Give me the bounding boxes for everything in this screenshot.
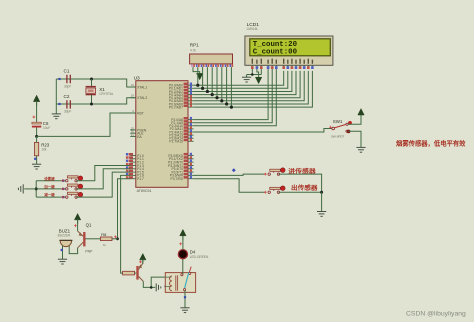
wire LCD VDD power	[257, 69, 259, 78]
capacitor C2	[64, 94, 72, 113]
svg-text:XTAL1: XTAL1	[137, 85, 147, 89]
wire SW1 upper throw to power	[348, 114, 361, 124]
power +5V (LED)	[180, 229, 186, 240]
node: C1/X1 junction	[90, 78, 93, 81]
U3 left pins XTAL1 XTAL2 RST	[130, 83, 147, 115]
wire R23 top	[36, 136, 38, 142]
wire common rail to button 3	[36, 196, 65, 198]
svg-text:RP1: RP1	[190, 43, 199, 48]
svg-text:30pF: 30pF	[64, 84, 71, 88]
wire P1.6 to relay driver	[121, 175, 131, 273]
wire sensors common to ground	[321, 192, 323, 211]
wire power to Q2 emitter	[142, 259, 144, 263]
wire common rail to button 1	[36, 180, 65, 182]
relay coil	[165, 275, 177, 290]
svg-text:设置键: 设置键	[44, 176, 55, 181]
wire LCD E to P2.2	[194, 69, 277, 126]
lcd pin boxes	[251, 65, 314, 69]
wire common rail to ground	[24, 188, 36, 190]
svg-text:10uF: 10uF	[43, 126, 50, 130]
wire R23 to ground	[36, 156, 38, 164]
svg-text:U3: U3	[134, 76, 140, 82]
wire P0.7 to LCD D7	[194, 71, 313, 107]
svg-text:XTAL2: XTAL2	[137, 96, 147, 100]
svg-text:P2.7/A15: P2.7/A15	[169, 140, 183, 144]
svg-text:30pF: 30pF	[64, 110, 71, 114]
ground (relay contact)	[180, 308, 189, 313]
wire SW1 lower throw to ground	[348, 131, 361, 147]
wire button3 to P1.5	[76, 172, 130, 197]
svg-text:减一键: 减一键	[44, 192, 55, 197]
crystal X1	[86, 87, 114, 97]
ground (LCD VSS/VEE)	[242, 77, 251, 82]
wire crystal bottom	[91, 95, 93, 104]
wire exit sensor to common node	[279, 191, 322, 193]
ground (crystal caps)	[52, 114, 61, 119]
svg-text:EA: EA	[137, 135, 142, 139]
wire buzzer to ground	[62, 246, 64, 259]
wire LCD RS to P2.0	[194, 69, 269, 120]
wire R9 to Q2 base	[135, 272, 137, 274]
led D4 LED-GREEN	[178, 249, 209, 259]
node coil wire junction	[150, 286, 153, 289]
svg-text:P1.7: P1.7	[137, 177, 144, 181]
ground (buzzer)	[58, 259, 67, 264]
buzzer BUZ1	[58, 228, 73, 246]
capacitor C6 (electrolytic)	[32, 121, 50, 130]
wire P2.4 to SW1 pole	[194, 129, 332, 133]
wire P0.4 to LCD D4	[194, 71, 301, 98]
svg-text:CRYSTAL: CRYSTAL	[99, 92, 114, 96]
origin marker (blue diamond)	[232, 168, 236, 172]
resistor R23	[35, 142, 50, 155]
U3 port P1 pins (P1.0-P1.7)	[126, 153, 144, 181]
wire power to C6	[36, 101, 38, 122]
U3 port P3 pins (P3.0-P3.7)	[168, 153, 193, 181]
wire C6 to RST node	[36, 128, 38, 137]
capacitor C1	[64, 69, 72, 89]
wire crystal caps common to ground	[55, 79, 57, 114]
wire common rail to button 2	[36, 188, 65, 190]
wire P3.6 to entry sensor	[194, 174, 266, 175]
transistor Q2 PNP	[136, 263, 143, 281]
svg-text:加一键: 加一键	[43, 184, 55, 189]
wire entry sensor to common node	[279, 174, 322, 192]
power +5V (SW1)	[358, 109, 364, 120]
svg-text:D4: D4	[190, 249, 196, 254]
power +5V (buzzer)	[74, 214, 80, 225]
node VSS junction	[251, 73, 254, 76]
svg-text:烟雾传感器，低电平有效: 烟雾传感器，低电平有效	[396, 139, 466, 148]
wire LCD RW to P2.1	[194, 69, 273, 123]
wire RP1 pin1 to power	[193, 67, 200, 74]
power +5V (relay)	[140, 254, 146, 265]
wire RST net to U3	[37, 113, 136, 136]
svg-text:P0.7/AD7: P0.7/AD7	[169, 105, 183, 109]
button entry-sensor (&#36827;&#20256;&#24863;&#22120;)	[264, 168, 285, 176]
ground (R23)	[32, 164, 41, 169]
U3 left pins PSEN ALE EA	[130, 126, 147, 139]
node RP1 pin3 junction on P0.1	[202, 67, 204, 88]
svg-text:LED-GREEN: LED-GREEN	[190, 255, 209, 259]
svg-text:BUZZER: BUZZER	[58, 234, 71, 238]
wire button1 to P1.3	[76, 166, 130, 181]
lcd LCD1 LM016L body	[245, 22, 333, 66]
resistor R9 (relay base)	[123, 271, 135, 275]
node RP1 pin2 junction on P0.0	[197, 67, 199, 85]
RP1 pin boxes	[191, 64, 233, 67]
svg-text:P3.7/RD: P3.7/RD	[171, 177, 184, 181]
wire relay to LED D4	[182, 259, 184, 273]
node RP1 pin5 junction on P0.3	[211, 67, 213, 95]
svg-text:LM016L: LM016L	[247, 27, 259, 31]
svg-text:1k: 1k	[103, 243, 107, 247]
wire R8 to Q1 base	[85, 238, 100, 240]
node: RST junction	[35, 135, 38, 138]
button key3	[44, 192, 82, 198]
wire P0.0 to LCD D0	[194, 71, 284, 85]
wire buttons common rail	[35, 181, 37, 197]
relay RL1 body	[165, 273, 195, 293]
power arrow down (LCD VDD)	[255, 77, 261, 83]
wire relay coil top to Q2 node	[151, 277, 165, 287]
button key1	[44, 176, 82, 182]
button exit-sensor (&#20986;&#20256;&#24863;&#22120;)	[264, 186, 285, 194]
ground (buttons, rotated left)	[18, 184, 23, 193]
wire crystal top	[91, 79, 93, 86]
svg-text:SW1: SW1	[333, 119, 343, 124]
wire Q1 collector to buzzer	[69, 245, 77, 253]
node RP1 pin9 junction on P0.7	[230, 67, 232, 107]
wire LCD VSS/VEE to ground	[247, 69, 262, 75]
ground (SW1)	[356, 147, 365, 152]
wire power to Q1 emitter	[77, 219, 79, 231]
node RP1 pin7 junction on P0.5	[221, 67, 223, 101]
svg-text:CSDN @libuyliyang: CSDN @libuyliyang	[406, 311, 466, 318]
svg-text:C6: C6	[43, 121, 49, 126]
power arrow down (RP1 common)	[197, 73, 203, 79]
wire XTAL1 net (C1 top to U3 XTAL1)	[56, 79, 136, 87]
svg-text:Q1: Q1	[86, 222, 92, 227]
button key2	[43, 184, 82, 190]
lcd screen with text	[250, 39, 330, 57]
node R8 junction	[116, 237, 119, 240]
mcu U3 AT89C51 body	[134, 76, 188, 194]
wire ground stub under LCD	[246, 75, 248, 78]
wire relay switch to ground	[183, 273, 185, 308]
ground (sensors)	[317, 212, 326, 217]
resistor pack RP1	[190, 43, 233, 64]
svg-text:SW-SPDT: SW-SPDT	[331, 134, 345, 138]
lcd pin name marks	[252, 59, 314, 64]
wire P0.6 to LCD D6	[194, 71, 309, 104]
svg-text:RST: RST	[137, 111, 144, 115]
svg-text:AT89C51: AT89C51	[137, 189, 152, 193]
svg-text:PNP: PNP	[85, 250, 93, 254]
svg-text:10k: 10k	[41, 148, 47, 152]
wire P0.1 to LCD D1	[194, 71, 288, 88]
svg-text:C1: C1	[64, 69, 70, 74]
node RP1 pin6 junction on P0.4	[216, 67, 218, 98]
node buttons common junction	[35, 187, 38, 190]
transistor Q1 PNP	[78, 222, 94, 253]
wire P1.7 to buzzer driver	[118, 179, 131, 239]
resistor R8	[100, 232, 117, 247]
wire button2 to P1.4	[76, 169, 130, 189]
node RP1 pin8 junction on P0.6	[226, 67, 228, 104]
wire Q2 collector down	[143, 281, 155, 287]
U3 port P2 pins (P2.0/A8-P2.7/A15)	[169, 117, 193, 144]
relay switch contact	[181, 267, 191, 291]
svg-text:C_count:00: C_count:00	[253, 49, 297, 57]
U3 port P0 pins (P0.0/AD0-P0.7/AD7)	[169, 83, 194, 110]
wire P0.2 to LCD D2	[194, 71, 292, 92]
node sensors common junction	[320, 191, 323, 194]
svg-text:R8: R8	[101, 232, 107, 237]
ground (Q2 emitter, rotated)	[156, 283, 161, 291]
node RP1 pin4 junction on P0.2	[206, 67, 208, 91]
node: C2/X1 junction	[90, 103, 93, 106]
svg-text:4.7k: 4.7k	[190, 48, 196, 52]
switch SW1 SW-SPDT	[329, 126, 332, 129]
wire P0.3 to LCD D3	[194, 71, 296, 95]
svg-text:出传感器: 出传感器	[291, 184, 319, 192]
svg-text:X1: X1	[99, 87, 105, 92]
svg-text:C2: C2	[64, 94, 70, 99]
wire LED to power	[182, 235, 184, 249]
wire XTAL2 net (C2 to U3 XTAL2)	[56, 98, 136, 104]
power +5V (reset)	[33, 95, 39, 106]
wire P0.5 to LCD D5	[194, 71, 305, 101]
wire P3.7 to exit sensor	[194, 179, 266, 193]
